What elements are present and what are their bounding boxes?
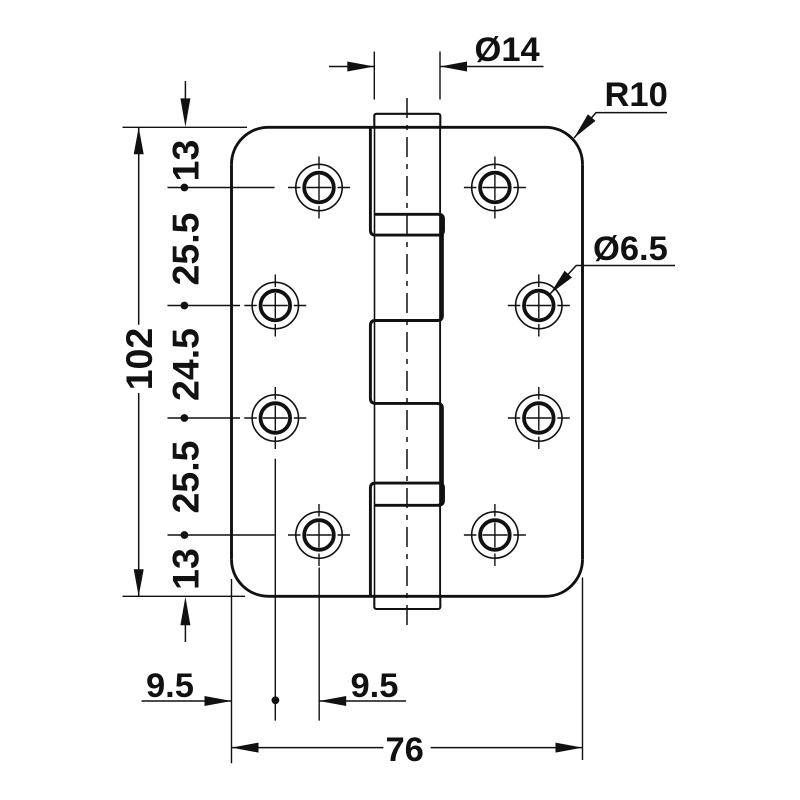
svg-text:102: 102 [118, 328, 160, 391]
svg-text:Ø14: Ø14 [475, 31, 540, 69]
svg-text:13: 13 [164, 548, 206, 590]
svg-text:9.5: 9.5 [146, 667, 194, 705]
svg-text:13: 13 [164, 140, 206, 182]
svg-text:Ø6.5: Ø6.5 [593, 230, 668, 268]
svg-text:25.5: 25.5 [164, 441, 206, 514]
svg-text:24.5: 24.5 [164, 328, 206, 401]
svg-text:R10: R10 [605, 76, 668, 114]
svg-text:76: 76 [386, 731, 424, 769]
svg-text:25.5: 25.5 [164, 213, 206, 286]
svg-text:9.5: 9.5 [351, 667, 399, 705]
